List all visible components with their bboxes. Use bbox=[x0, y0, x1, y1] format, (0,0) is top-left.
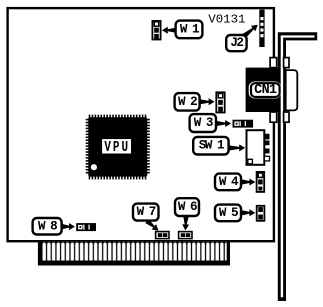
svg-text:W 2: W 2 bbox=[178, 95, 197, 109]
label W7 bbox=[133, 204, 159, 221]
ISA mounting bracket bbox=[278, 32, 317, 301]
svg-text:W 1: W 1 bbox=[180, 22, 200, 36]
arrow W2 bbox=[199, 98, 215, 105]
svg-text:W 5: W 5 bbox=[219, 206, 238, 220]
IC VPU bbox=[86, 115, 150, 180]
svg-text:SW 1: SW 1 bbox=[199, 139, 225, 153]
label W4 bbox=[215, 174, 241, 191]
board outline bbox=[8, 8, 274, 241]
jumper W5 bbox=[257, 206, 265, 221]
label W5 bbox=[215, 205, 241, 222]
arrow W3 bbox=[216, 120, 232, 127]
svg-text:CN1: CN1 bbox=[254, 83, 277, 98]
jumper W7 bbox=[156, 232, 169, 239]
jumper W8 bbox=[76, 223, 96, 231]
jumper W3 bbox=[233, 120, 254, 128]
CN1 D-sub shell bbox=[286, 70, 298, 110]
arrow W4 bbox=[241, 179, 255, 186]
arrow W1 bbox=[162, 27, 177, 34]
svg-text:W 7: W 7 bbox=[137, 205, 156, 219]
svg-text:W 8: W 8 bbox=[38, 219, 57, 233]
svg-text:W 6: W 6 bbox=[178, 200, 197, 214]
jumper W2 bbox=[216, 92, 224, 112]
label W3 bbox=[190, 114, 216, 132]
connector CN1 body bbox=[246, 68, 281, 112]
label W2 bbox=[175, 93, 200, 111]
arrow W5 bbox=[241, 209, 255, 216]
CN1 jack posts bbox=[270, 58, 289, 123]
J2 header strip bbox=[259, 10, 264, 47]
jumper W4 bbox=[257, 172, 265, 192]
jumper W1 bbox=[152, 21, 160, 40]
label CN1 bbox=[249, 82, 281, 99]
arrow J2 bbox=[242, 25, 258, 39]
svg-text:VPU: VPU bbox=[104, 138, 130, 155]
svg-text:W 4: W 4 bbox=[219, 175, 239, 189]
arrow SW1 bbox=[229, 144, 246, 151]
arrow W6 bbox=[182, 216, 189, 230]
label SW1 bbox=[193, 137, 228, 155]
DIP switch SW1 bbox=[247, 130, 270, 165]
label W6 bbox=[175, 198, 199, 216]
jumper W6 bbox=[179, 232, 192, 239]
arrow W7 bbox=[145, 219, 158, 231]
svg-text:W 3: W 3 bbox=[194, 116, 213, 130]
label W8 bbox=[33, 218, 62, 235]
label W1 bbox=[176, 21, 203, 39]
svg-text:J2: J2 bbox=[230, 36, 243, 50]
arrow W8 bbox=[62, 223, 75, 230]
svg-text:V0131: V0131 bbox=[208, 13, 245, 27]
label J2 bbox=[226, 35, 246, 51]
